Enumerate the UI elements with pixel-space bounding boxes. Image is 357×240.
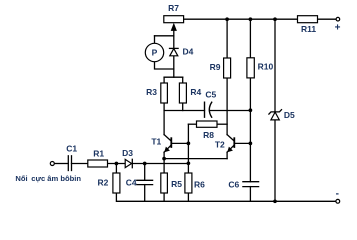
svg-text:R4: R4 (190, 87, 201, 97)
svg-text:C5: C5 (205, 89, 216, 99)
svg-text:Nối cực âm bôbin: Nối cực âm bôbin (15, 174, 81, 183)
svg-text:P: P (152, 48, 158, 58)
svg-text:R10: R10 (258, 62, 274, 72)
svg-text:R3: R3 (146, 87, 157, 97)
svg-text:C6: C6 (228, 180, 239, 190)
svg-text:R8: R8 (203, 130, 214, 140)
svg-text:R11: R11 (301, 24, 316, 34)
svg-text:T2: T2 (215, 140, 225, 150)
svg-text:R5: R5 (171, 179, 182, 189)
svg-text:R6: R6 (194, 179, 205, 189)
svg-text:D4: D4 (182, 47, 193, 57)
svg-text:T1: T1 (151, 136, 161, 146)
svg-text:R1: R1 (93, 149, 104, 159)
svg-text:C4: C4 (126, 178, 137, 188)
svg-text:R9: R9 (210, 62, 221, 72)
svg-text:-: - (336, 189, 339, 200)
svg-text:+: + (335, 22, 341, 33)
svg-text:C1: C1 (66, 143, 77, 153)
svg-text:R7: R7 (168, 3, 179, 13)
svg-text:D3: D3 (122, 148, 133, 158)
svg-text:R2: R2 (97, 178, 108, 188)
svg-text:D5: D5 (284, 110, 295, 120)
